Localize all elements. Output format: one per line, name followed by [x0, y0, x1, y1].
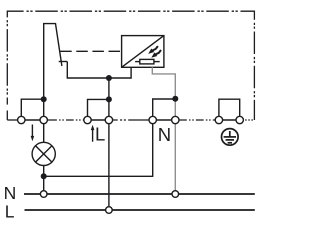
svg-text:L: L — [5, 202, 15, 222]
svg-text:L: L — [95, 124, 105, 145]
svg-text:N: N — [158, 124, 171, 145]
svg-text:N: N — [4, 183, 17, 203]
